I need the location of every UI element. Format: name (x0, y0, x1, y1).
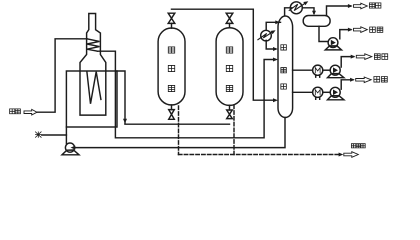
label 焦炭塔 drum1 (168, 47, 174, 92)
motor M1 letter (315, 68, 320, 73)
label 水 water (35, 132, 41, 137)
arrowhead into reflux drum (312, 11, 316, 16)
wire drum1 top stub (171, 23, 173, 28)
open flow arrow 石油焦 (344, 152, 359, 158)
wire diesel product line (341, 57, 353, 67)
valve V4 drum2 bottom (227, 110, 233, 119)
wire fractionator bottoms to pump P1 (75, 118, 285, 148)
arrowhead gas (348, 4, 353, 8)
arrowhead into pump P1 (71, 146, 76, 150)
wire water line (42, 134, 67, 136)
wire drum2 top stub (229, 23, 231, 27)
wire gasoline line (340, 30, 351, 39)
wire reflux drum to pump P2 (319, 26, 328, 41)
heat exchanger E1 circle (261, 30, 272, 41)
pump P2 base (325, 46, 341, 50)
wire M1 to pump P3 (323, 69, 330, 71)
wire transfer line A coil outlet to fractionator (98, 51, 276, 138)
furnace F1 chimney and body (80, 14, 106, 116)
wire drum1 bottom stub (171, 105, 173, 110)
pump P3 impeller (333, 67, 338, 73)
valve V2 drum1 bottom (169, 110, 175, 120)
furnace coil zigzag (87, 39, 99, 51)
arrowhead gasoline (348, 28, 353, 32)
wire drum2 bottom stub (229, 105, 231, 110)
wire M2 to pump P4 (323, 91, 330, 93)
wire gas line (327, 6, 351, 16)
wire column overhead to E2 (285, 8, 292, 16)
pump P4 circle (330, 87, 340, 97)
coke drum T2 shell (216, 28, 243, 106)
pump P2 impeller (331, 40, 336, 46)
label 气体 (369, 3, 381, 8)
label 汽油 (370, 27, 383, 32)
heat exchanger E2 circle (290, 2, 302, 14)
motor M2 legs (316, 97, 320, 99)
wire wax oil draw (293, 91, 313, 93)
valve V1 drum1 top (168, 13, 175, 23)
pump P4 impeller (333, 90, 338, 96)
wire furnace to pump P1 (65, 127, 67, 144)
pump P3 base (328, 74, 344, 78)
arrowhead diesel (351, 55, 356, 59)
label 分馏塔 (281, 45, 287, 89)
pump P1 base (62, 150, 79, 155)
motor M2 circle (313, 87, 323, 97)
open flow arrow 气体 (354, 3, 368, 9)
coke drum T1 shell (158, 28, 185, 105)
wire overhead vapor header (172, 9, 276, 100)
label 原料 feed (10, 109, 21, 114)
motor M1 circle (313, 65, 323, 75)
pump P1 circle (65, 143, 74, 152)
open flow arrow 蜡油 (356, 77, 372, 83)
valve V3 drum2 top (226, 13, 233, 23)
E2 zigzag arrow (289, 3, 305, 10)
furnace flame (87, 72, 101, 104)
dashed coke line drum2 (233, 105, 235, 155)
arrowhead wax (350, 78, 355, 82)
open flow arrow 汽油 (354, 27, 368, 33)
wire bottom valve header (125, 123, 230, 125)
label 柴油 (374, 54, 387, 60)
wire furnace top to drum valve header (line B) (117, 71, 126, 124)
motor M1 legs (316, 75, 320, 77)
fractionator T3 shell (278, 16, 293, 118)
wire feed to furnace coil (37, 39, 87, 112)
pump P2 circle (328, 38, 338, 48)
arrowhead E1 return (273, 47, 278, 51)
label 焦炭塔 drum2 (226, 47, 232, 92)
furnace firebox rectangle (66, 71, 117, 127)
heat exchanger E1 loop left of column (266, 22, 280, 30)
wire diesel draw (293, 69, 313, 71)
reflux drum D1 (303, 16, 330, 27)
arrowhead line A into fractionator (273, 58, 278, 62)
arrowhead line B down (123, 119, 127, 124)
wire E2 to reflux drum (302, 8, 314, 13)
open flow arrow 柴油 (356, 54, 372, 60)
dashed coke line drum1 (178, 106, 180, 155)
label 蜡油 (374, 77, 387, 83)
open flow arrow feed (24, 109, 37, 115)
arrowhead E1 loop into dome (275, 20, 280, 24)
pump P4 base (328, 96, 344, 100)
label 石油焦 (351, 144, 365, 148)
motor M2 letter (315, 90, 320, 95)
pump P3 circle (330, 65, 340, 75)
arrowhead coke line (339, 153, 344, 157)
dashed petroleum coke header (179, 154, 341, 156)
arrowhead vapor into fractionator (273, 98, 278, 102)
E1 zigzag arrow (258, 32, 273, 40)
wire wax product line (341, 80, 353, 89)
